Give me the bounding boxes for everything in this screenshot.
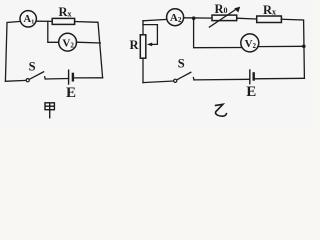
switch S contact tick (44, 77, 47, 79)
junction dot after A2 (192, 16, 196, 20)
wire: pivot to rheostat R bottom corner (143, 81, 174, 83)
wire: top-left corner to ammeter A2 (143, 19, 167, 20)
wire: bottom-right to battery (255, 77, 305, 80)
wire: tee down to voltmeter branch (48, 21, 59, 42)
battery E (long plate) (68, 70, 70, 84)
switch S pivot (26, 79, 29, 82)
wire: V2 to right-side tee (77, 41, 101, 44)
ammeter A1 (20, 11, 36, 27)
wire: R0 to Rx (237, 17, 257, 20)
wire: V2 to right-side junction (258, 45, 304, 47)
switch S blade (177, 72, 191, 80)
switch S contact tick (192, 78, 195, 80)
svg-text:S: S (178, 56, 185, 70)
wire: bottom right to battery (73, 77, 103, 79)
rheostat R0 (box) (212, 15, 237, 21)
svg-text:E: E (66, 85, 76, 101)
wire: junction down to voltmeter branch (194, 18, 242, 48)
switch S pivot (174, 79, 177, 82)
wire: pivot to bottom-left corner (5, 79, 26, 82)
rheostat R0 arrowhead (234, 7, 240, 13)
wire: slider hook (143, 25, 157, 45)
label 甲 (drawn) (45, 103, 54, 119)
wire: A1 to resistor Rx (36, 20, 52, 22)
battery E (short plate) (252, 73, 254, 79)
rheostat R0 arrow (209, 9, 237, 28)
svg-text:E: E (246, 84, 256, 100)
wire: Rx to top-right corner, down right side (75, 22, 103, 78)
wire: left riser below R (142, 58, 144, 82)
resistor Rx (box) (52, 18, 74, 24)
battery E (long plate) (249, 70, 251, 84)
wire: battery to switch contact (194, 78, 250, 81)
wire: A2 to rheostat R0 (184, 17, 212, 19)
wire: R top to top-left corner (142, 21, 144, 35)
svg-text:S: S (29, 60, 36, 74)
rheostat R (vertical box) (140, 35, 146, 58)
svg-text:R: R (130, 38, 140, 52)
resistor Rx (box) (257, 16, 282, 23)
rheostat R slider arrowhead (147, 43, 152, 47)
wire: battery to switch contact (45, 78, 68, 81)
voltmeter V2 (241, 34, 259, 52)
wire: Rx to top-right corner, down right side (281, 19, 304, 78)
voltmeter V2 (59, 33, 77, 51)
wire: left side, top-left corner to ammeter (5, 21, 20, 81)
ammeter A2 (167, 9, 184, 26)
battery E (short plate) (72, 74, 74, 80)
switch S blade (29, 72, 43, 80)
junction dot right side (302, 45, 306, 49)
label 乙 (drawn) (215, 104, 227, 116)
